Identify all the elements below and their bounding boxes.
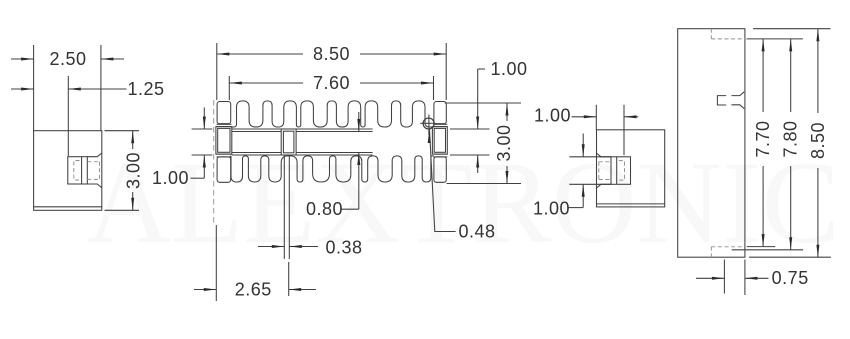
dim 7.80 line+arrows [790, 39, 792, 112]
view2 slot lines left segment [232, 128, 281, 130]
view2 right cap top rect [434, 102, 446, 124]
dim 1.25 arrows [11, 88, 34, 90]
view2 right cap bottom rect [434, 157, 446, 182]
dim 8.50 extensions [216, 43, 218, 100]
svg-text:1.00: 1.00 [534, 106, 571, 126]
view2 contact box [281, 129, 296, 155]
svg-text:8.50: 8.50 [808, 122, 828, 159]
dim 7.70 line+arrows [762, 39, 764, 112]
dim 1.25 center extension [67, 76, 69, 156]
view4 hidden line top [710, 29, 712, 39]
dim 1.00 right leader [478, 68, 485, 70]
dim 1.00 v3 horizontal extensions [595, 105, 597, 130]
svg-text:ALEXTRONIC: ALEXTRONIC [86, 137, 840, 268]
dim 2.65 extensions [215, 225, 217, 301]
view1 hidden slot top [87, 161, 99, 163]
dim 1.00 v3 vertical arrows [582, 134, 584, 157]
dim 1.00 left extensions [192, 128, 213, 130]
view2 bottom meander outline [230, 156, 434, 182]
view2 right cap divider [433, 123, 447, 125]
dim 8.50 v4 bottom extension [749, 256, 831, 258]
dim 7.60 extensions [228, 76, 230, 100]
svg-text:8.50: 8.50 [313, 44, 350, 64]
view3 funnel top [597, 153, 612, 157]
dim 3.00 v2 line+arrows [506, 103, 508, 121]
dim 0.38 arrows [258, 246, 284, 248]
dim 7.80 bottom extension [732, 249, 803, 251]
view2 right cap divider2 [433, 153, 447, 155]
dim 3.00 v1 extensions [105, 130, 140, 132]
view4 contact funnel [732, 92, 745, 96]
view4 contact clip [717, 96, 726, 105]
svg-text:3.00: 3.00 [124, 152, 144, 189]
view2 left cap mid rect [216, 127, 232, 155]
dim 1.00 right extensions [450, 128, 490, 130]
view2 left cap bottom rect [217, 157, 231, 182]
dim 0.75 extensions [723, 260, 725, 294]
view2 top meander outline [231, 101, 434, 127]
svg-text:7.70: 7.70 [753, 120, 773, 157]
svg-text:2.50: 2.50 [49, 49, 86, 69]
dim 8.50 v4 top extension [753, 28, 830, 30]
view1 standoff line [34, 206, 102, 208]
view2 right cap mid rect [432, 127, 447, 155]
view1 contact box [68, 157, 88, 184]
view1 funnel top [87, 153, 102, 157]
dim 0.75 arrows [696, 277, 724, 279]
view3 body outline [597, 130, 665, 207]
dim 0.48 leader [430, 130, 456, 232]
svg-text:1.00: 1.00 [152, 168, 189, 188]
view1 body outline [34, 131, 102, 211]
view1 contact inner vertical [81, 157, 83, 184]
view2 hole crosshair [420, 122, 434, 124]
svg-text:7.60: 7.60 [313, 73, 350, 93]
svg-text:3.00: 3.00 [494, 124, 514, 161]
dim 2.65 arrows [194, 289, 216, 291]
view3 standoff line [597, 203, 665, 205]
svg-text:1.00: 1.00 [533, 199, 570, 219]
dim 7.70 7.80 top extension [747, 38, 803, 40]
dim 2.50 extension lines [33, 45, 35, 131]
dim 1.00 left arrows [203, 107, 205, 129]
dim 7.70 bottom extension [747, 246, 776, 248]
view4 hidden line bottom [710, 247, 712, 257]
view2 dashed edge line [213, 100, 215, 224]
view1 funnel bottom [87, 184, 102, 188]
svg-text:7.80: 7.80 [781, 120, 801, 157]
view3 contact inner vertical [616, 157, 618, 185]
dim 3.00 v1 line+arrows [132, 131, 134, 149]
view3 funnel bottom [597, 184, 612, 188]
view2 left cap divider2 [217, 153, 232, 155]
view1 hidden contact C [74, 161, 80, 181]
dim 8.50 line+arrows [217, 53, 303, 55]
view2 left cap divider [217, 123, 232, 125]
dim 3.00 v2 extensions [445, 102, 521, 104]
view2 contact tail [283, 155, 285, 259]
dim 0.80 arrows [358, 112, 360, 132]
view3 contact box [611, 157, 631, 185]
svg-text:0.80: 0.80 [306, 199, 343, 219]
view4 body outline [678, 29, 745, 258]
svg-text:0.38: 0.38 [325, 237, 362, 257]
dim 1.00 v3 vertical extensions [569, 156, 611, 158]
svg-text:1.00: 1.00 [490, 59, 527, 79]
view2 slot lines right segment [296, 128, 373, 130]
dim 2.50 arrows [11, 58, 34, 60]
view2 left cap top rect [217, 102, 231, 124]
view2 hole circle [423, 118, 434, 129]
view3 hidden contact C [619, 161, 625, 181]
svg-text:0.48: 0.48 [458, 222, 495, 242]
dim 7.60 line+arrows [229, 82, 303, 84]
svg-text:1.25: 1.25 [127, 79, 164, 99]
view3 hidden slot [599, 161, 611, 163]
dim 1.00 v3 horizontal arrows [572, 116, 597, 118]
svg-text:0.75: 0.75 [772, 268, 809, 288]
dim 8.50 v4 line+arrows [817, 29, 819, 113]
svg-text:2.65: 2.65 [235, 280, 272, 300]
